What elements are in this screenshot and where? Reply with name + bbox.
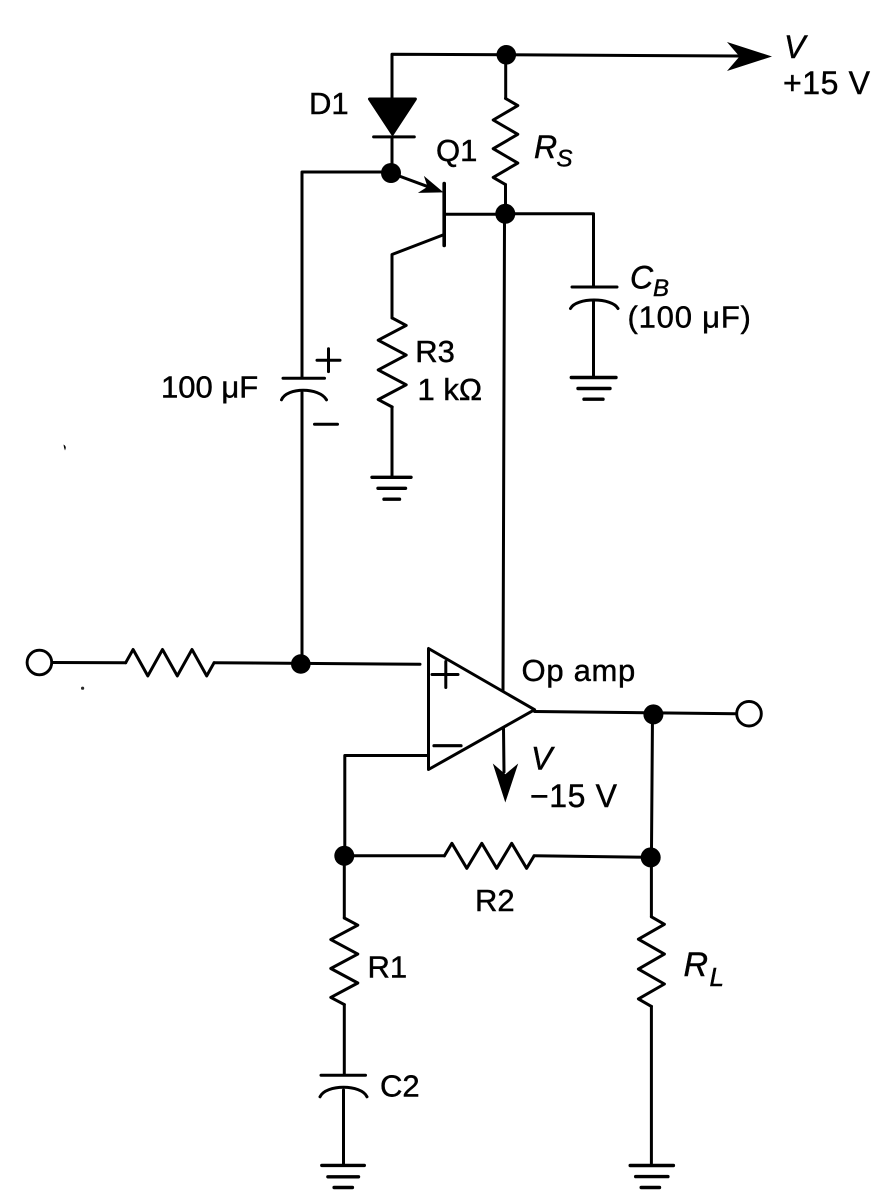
wire <box>391 137 394 166</box>
svg-text:Op amp: Op amp <box>522 653 636 688</box>
wire <box>343 865 346 918</box>
wire <box>343 1005 346 1075</box>
wire <box>392 54 740 100</box>
svg-text:C2: C2 <box>380 1068 420 1103</box>
svg-text:R2: R2 <box>475 883 515 918</box>
svg-text:1 kΩ: 1 kΩ <box>418 372 483 407</box>
resistor (input, unlabeled) <box>126 650 214 676</box>
svg-text:L: L <box>710 962 724 992</box>
wire <box>505 214 593 286</box>
node output junction <box>643 704 663 724</box>
wire <box>504 185 507 206</box>
svg-text:Q1: Q1 <box>436 133 477 168</box>
wire <box>302 172 391 378</box>
diode D1 <box>370 99 416 134</box>
wire <box>52 661 126 664</box>
wire <box>214 663 420 665</box>
wire <box>592 302 595 376</box>
svg-text:R3: R3 <box>415 334 455 369</box>
V -15 V supply arrow (down) <box>493 764 518 803</box>
node feedback right junction <box>641 847 661 867</box>
resistor R1 <box>331 918 358 1005</box>
node Rs/base junction <box>495 204 515 224</box>
resistor R2 <box>444 843 534 868</box>
wire (to -15V, lower segment) <box>502 728 506 772</box>
plus sign <box>317 359 340 362</box>
ground (below RL) <box>630 1164 673 1167</box>
ground (below CB) <box>571 376 616 379</box>
Q1 emitter wire with arrow <box>391 173 428 187</box>
output terminal circle <box>737 701 762 726</box>
svg-text:V: V <box>784 29 808 65</box>
svg-text:C: C <box>630 260 654 296</box>
wire <box>652 714 653 849</box>
node feedback left junction <box>334 846 354 866</box>
capacitor 100uF (plus plate) <box>283 377 325 380</box>
svg-text:(100 μF): (100 μF) <box>628 300 752 335</box>
wire <box>534 856 651 858</box>
svg-text:S: S <box>557 146 573 173</box>
svg-text:+15 V: +15 V <box>783 65 871 101</box>
wire <box>650 866 653 917</box>
Q1 collector wire <box>392 235 444 319</box>
input terminal circle <box>27 650 52 675</box>
wire <box>344 854 444 857</box>
node input junction <box>291 654 311 674</box>
transistor Q1 base bar <box>442 184 446 246</box>
node top junction <box>497 45 517 65</box>
wire <box>504 63 507 98</box>
svg-text:100 μF: 100 μF <box>161 369 258 404</box>
wire (output) <box>535 712 736 714</box>
wire (inverting input stub) <box>345 756 429 849</box>
wire <box>342 1090 345 1164</box>
svg-text:R: R <box>534 129 557 165</box>
op-amp U1 <box>429 649 535 770</box>
ground (below R3) <box>372 476 411 479</box>
wire (to -15V, upper segment) <box>503 223 505 691</box>
svg-text:R1: R1 <box>368 949 408 984</box>
capacitor CB <box>572 286 617 289</box>
(scan speckle) <box>64 445 66 451</box>
svg-text:B: B <box>653 275 669 302</box>
resistor RL <box>638 917 664 1007</box>
ground (below C2) <box>322 1164 365 1167</box>
svg-text:V: V <box>531 740 555 776</box>
wire <box>650 1006 653 1163</box>
Q1 base wire <box>444 213 497 216</box>
minus sign <box>315 423 338 426</box>
svg-text:D1: D1 <box>309 86 349 121</box>
svg-text:R: R <box>684 946 709 984</box>
resistor Rs <box>493 98 518 184</box>
svg-text:−15 V: −15 V <box>530 778 618 814</box>
V +15 V supply arrow <box>727 42 772 71</box>
wire <box>301 393 304 656</box>
capacitor C2 <box>321 1074 366 1077</box>
resistor R3 <box>378 318 406 407</box>
node diode-cathode junction <box>381 163 401 183</box>
wire <box>391 407 394 476</box>
